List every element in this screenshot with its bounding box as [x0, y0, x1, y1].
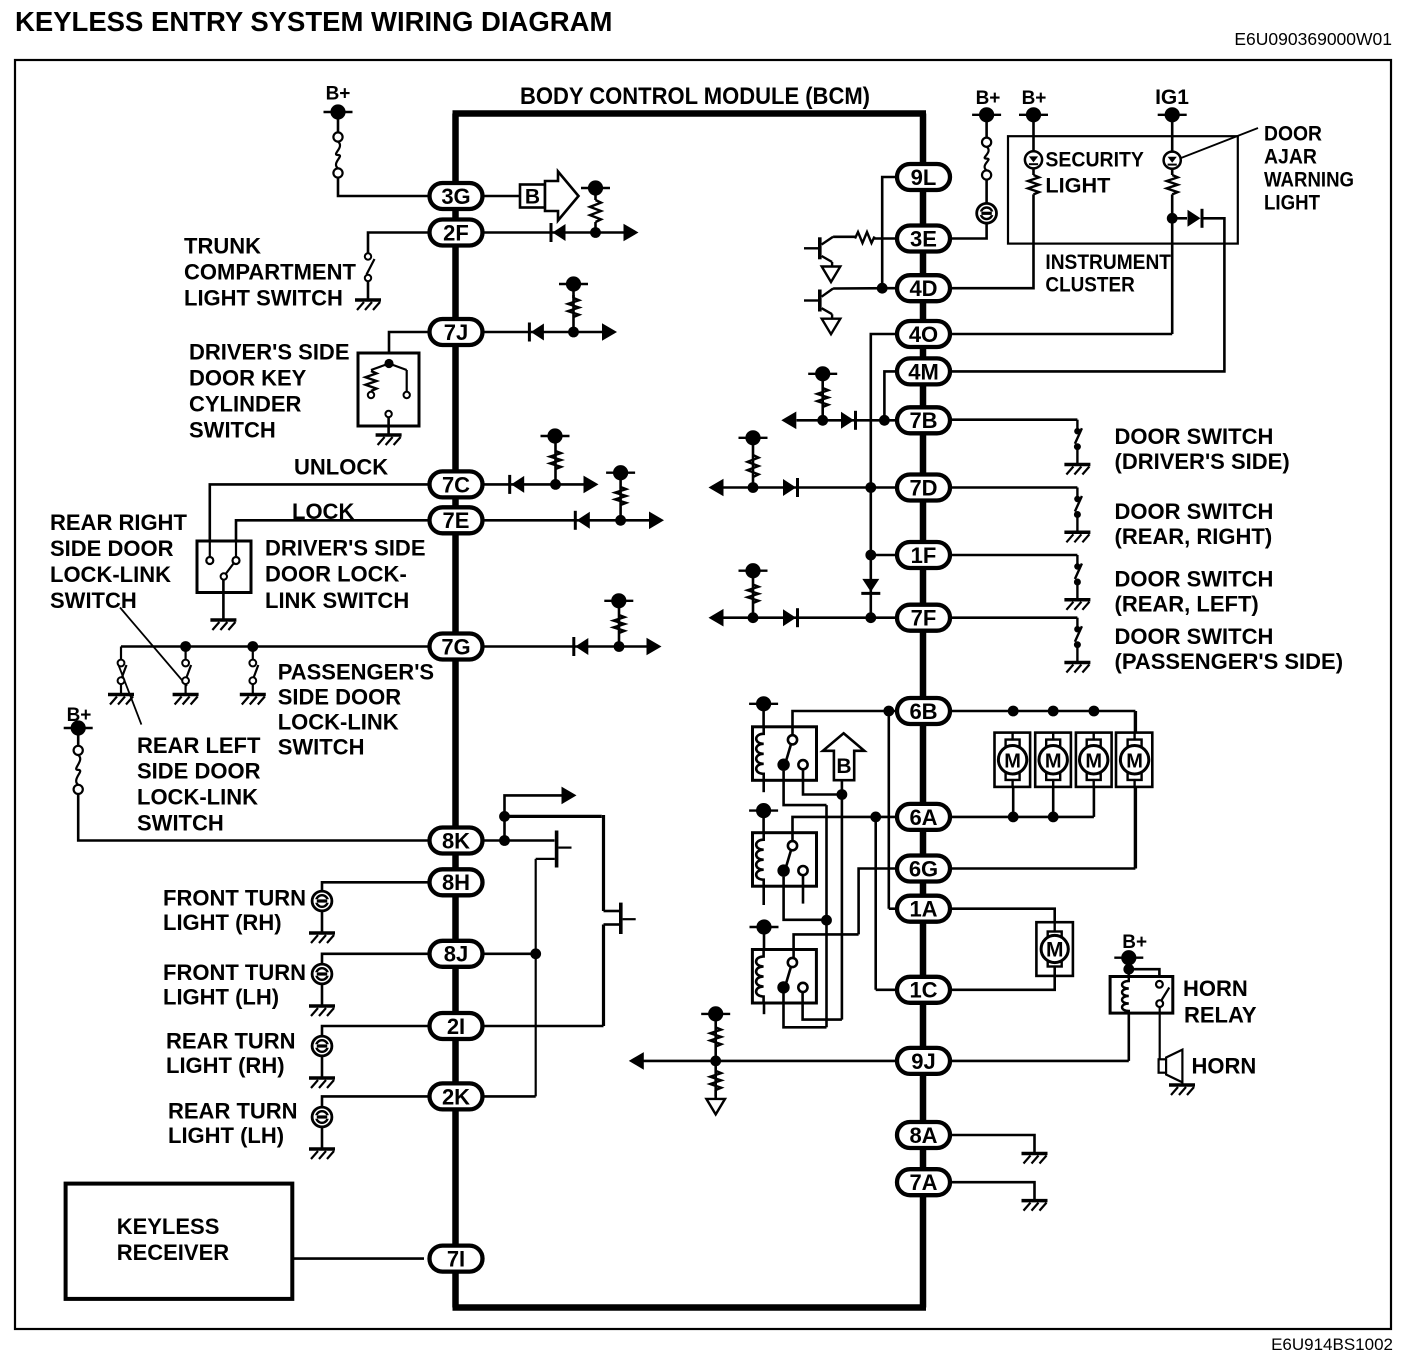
svg-text:HORN: HORN: [1192, 1054, 1257, 1079]
svg-text:B: B: [525, 186, 540, 209]
svg-text:7I: 7I: [447, 1247, 465, 1272]
svg-text:M: M: [1004, 750, 1021, 772]
svg-text:LIGHT: LIGHT: [1264, 192, 1320, 215]
svg-text:TRUNK: TRUNK: [184, 234, 261, 259]
svg-text:FRONT TURN: FRONT TURN: [163, 886, 306, 911]
svg-text:SIDE DOOR: SIDE DOOR: [278, 685, 402, 710]
svg-text:1F: 1F: [911, 543, 937, 568]
svg-text:KEYLESS ENTRY SYSTEM WIRING DI: KEYLESS ENTRY SYSTEM WIRING DIAGRAM: [15, 6, 612, 37]
svg-text:B+: B+: [976, 88, 1001, 109]
svg-text:WARNING: WARNING: [1264, 169, 1354, 192]
svg-text:DOOR SWITCH: DOOR SWITCH: [1115, 624, 1274, 649]
svg-text:B: B: [836, 755, 851, 778]
svg-text:RELAY: RELAY: [1184, 1003, 1257, 1028]
svg-text:7B: 7B: [909, 408, 937, 433]
svg-text:LOCK-LINK: LOCK-LINK: [50, 562, 171, 587]
svg-text:7C: 7C: [442, 472, 470, 497]
svg-text:(DRIVER'S SIDE): (DRIVER'S SIDE): [1115, 449, 1290, 474]
svg-text:(PASSENGER'S SIDE): (PASSENGER'S SIDE): [1115, 649, 1344, 674]
svg-text:REAR RIGHT: REAR RIGHT: [50, 510, 187, 535]
svg-text:8H: 8H: [442, 870, 470, 895]
svg-text:B+: B+: [326, 84, 351, 105]
svg-text:LOCK-LINK: LOCK-LINK: [278, 710, 399, 735]
svg-text:LINK SWITCH: LINK SWITCH: [265, 588, 409, 613]
svg-text:FRONT TURN: FRONT TURN: [163, 960, 306, 985]
svg-text:KEYLESS: KEYLESS: [117, 1214, 220, 1239]
svg-text:LOCK-LINK: LOCK-LINK: [137, 785, 258, 810]
svg-text:6G: 6G: [909, 856, 938, 881]
svg-text:6A: 6A: [909, 805, 937, 830]
svg-text:B+: B+: [1122, 932, 1147, 953]
svg-text:4D: 4D: [909, 276, 937, 301]
svg-text:SWITCH: SWITCH: [189, 418, 276, 443]
svg-text:SECURITY: SECURITY: [1045, 149, 1144, 172]
svg-text:DOOR KEY: DOOR KEY: [189, 366, 307, 391]
svg-text:M: M: [1126, 750, 1143, 772]
svg-text:LIGHT (RH): LIGHT (RH): [163, 910, 282, 935]
svg-text:COMPARTMENT: COMPARTMENT: [184, 260, 356, 285]
svg-text:SWITCH: SWITCH: [278, 735, 365, 760]
svg-text:SIDE DOOR: SIDE DOOR: [50, 536, 174, 561]
svg-text:DOOR SWITCH: DOOR SWITCH: [1115, 424, 1274, 449]
svg-text:2F: 2F: [443, 220, 469, 245]
svg-text:DRIVER'S SIDE: DRIVER'S SIDE: [189, 340, 350, 365]
svg-text:DOOR SWITCH: DOOR SWITCH: [1115, 567, 1274, 592]
svg-text:LIGHT (LH): LIGHT (LH): [168, 1123, 284, 1148]
svg-text:LIGHT SWITCH: LIGHT SWITCH: [184, 286, 343, 311]
svg-text:UNLOCK: UNLOCK: [294, 455, 388, 480]
svg-text:B+: B+: [1022, 88, 1047, 109]
svg-text:IG1: IG1: [1155, 86, 1189, 109]
svg-text:7D: 7D: [909, 475, 937, 500]
svg-text:LIGHT (LH): LIGHT (LH): [163, 985, 279, 1010]
svg-text:RECEIVER: RECEIVER: [117, 1240, 230, 1265]
svg-text:REAR TURN: REAR TURN: [166, 1029, 296, 1054]
svg-text:6B: 6B: [909, 699, 937, 724]
svg-text:3G: 3G: [441, 184, 470, 209]
svg-text:(REAR, RIGHT): (REAR, RIGHT): [1115, 524, 1273, 549]
svg-text:9L: 9L: [911, 165, 937, 190]
svg-text:7A: 7A: [909, 1170, 937, 1195]
svg-text:REAR LEFT: REAR LEFT: [137, 733, 261, 758]
svg-text:2I: 2I: [447, 1014, 465, 1039]
svg-text:9J: 9J: [911, 1049, 935, 1074]
svg-text:SWITCH: SWITCH: [50, 588, 137, 613]
svg-text:(REAR, LEFT): (REAR, LEFT): [1115, 592, 1259, 617]
svg-text:M: M: [1045, 750, 1062, 772]
svg-text:AJAR: AJAR: [1264, 146, 1317, 169]
svg-text:DOOR: DOOR: [1264, 123, 1322, 146]
svg-text:7J: 7J: [444, 320, 468, 345]
svg-text:REAR TURN: REAR TURN: [168, 1099, 298, 1124]
svg-text:4O: 4O: [909, 322, 938, 347]
svg-text:DOOR SWITCH: DOOR SWITCH: [1115, 499, 1274, 524]
svg-text:DOOR LOCK-: DOOR LOCK-: [265, 562, 407, 587]
svg-text:INSTRUMENT: INSTRUMENT: [1045, 251, 1171, 274]
svg-text:SIDE DOOR: SIDE DOOR: [137, 759, 261, 784]
svg-text:1A: 1A: [909, 897, 937, 922]
svg-text:SWITCH: SWITCH: [137, 811, 224, 836]
svg-text:2K: 2K: [442, 1084, 470, 1109]
svg-text:LIGHT: LIGHT: [1045, 175, 1110, 198]
svg-text:BODY CONTROL MODULE (BCM): BODY CONTROL MODULE (BCM): [520, 83, 870, 110]
svg-text:8A: 8A: [909, 1123, 937, 1148]
svg-text:M: M: [1046, 938, 1064, 961]
svg-text:PASSENGER'S: PASSENGER'S: [278, 660, 434, 685]
svg-text:E6U090369000W01: E6U090369000W01: [1234, 29, 1392, 49]
svg-text:CLUSTER: CLUSTER: [1045, 274, 1134, 297]
svg-text:3E: 3E: [910, 226, 937, 251]
svg-text:E6U914BS1002: E6U914BS1002: [1271, 1335, 1393, 1354]
svg-text:LIGHT (RH): LIGHT (RH): [166, 1053, 285, 1078]
svg-text:7E: 7E: [443, 508, 470, 533]
svg-text:8J: 8J: [444, 942, 468, 967]
svg-text:8K: 8K: [442, 828, 470, 853]
svg-text:HORN: HORN: [1183, 976, 1248, 1001]
svg-text:7F: 7F: [911, 606, 937, 631]
svg-text:M: M: [1085, 750, 1102, 772]
svg-text:7G: 7G: [441, 634, 470, 659]
svg-text:CYLINDER: CYLINDER: [189, 392, 302, 417]
svg-text:1C: 1C: [909, 978, 937, 1003]
svg-text:DRIVER'S SIDE: DRIVER'S SIDE: [265, 536, 426, 561]
svg-text:4M: 4M: [908, 359, 939, 384]
